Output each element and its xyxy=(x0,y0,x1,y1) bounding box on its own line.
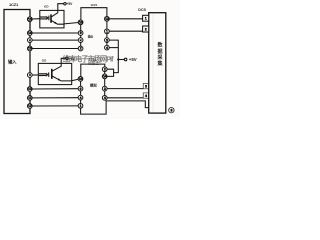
wire row y=40 xyxy=(32,39,78,41)
DCS pin square 1 xyxy=(143,15,149,21)
GD2 emitter xyxy=(52,76,72,81)
svg-text:×: × xyxy=(80,38,82,42)
svg-text:据: 据 xyxy=(157,48,162,55)
pin circles left box xyxy=(27,16,109,108)
svg-text:10: 10 xyxy=(28,87,32,91)
svg-text:4: 4 xyxy=(104,96,106,100)
socket1 pin 4 xyxy=(105,45,110,50)
svg-text:GD: GD xyxy=(44,5,49,9)
wire socket3 to bus xyxy=(109,40,118,48)
socket2 pin 14 xyxy=(102,74,107,79)
wire socket1 to DCS pin2 xyxy=(109,30,142,32)
svg-text:1: 1 xyxy=(106,30,108,34)
svg-text:1: 1 xyxy=(145,17,147,21)
svg-text:15: 15 xyxy=(28,17,32,21)
wire socket13 to DCS pin1 xyxy=(109,18,142,20)
GD2 phototransistor bar xyxy=(51,69,53,79)
socket right spine xyxy=(106,21,108,46)
svg-text:×: × xyxy=(29,38,31,42)
svg-text:+5V: +5V xyxy=(129,57,137,62)
svg-text:+5V: +5V xyxy=(69,57,76,61)
wire row y=33 xyxy=(32,32,78,34)
wire socket to DCS pin3 xyxy=(107,88,143,90)
socket1 pin 13 xyxy=(105,16,110,21)
svg-text:12: 12 xyxy=(28,104,32,108)
wire node to +5V term xyxy=(118,59,124,61)
plug1 pin b xyxy=(78,31,83,36)
svg-text:9: 9 xyxy=(80,31,82,35)
svg-text:数: 数 xyxy=(157,42,163,49)
plug1 pin a xyxy=(78,20,83,25)
vertical label in DCS box xyxy=(156,42,163,68)
+5V terminal 3 xyxy=(124,58,127,61)
wire socket4 to bus xyxy=(109,47,118,49)
svg-text:采: 采 xyxy=(156,54,163,61)
DCS pin square 3 xyxy=(143,84,149,89)
svg-text:14: 14 xyxy=(28,31,32,35)
socket2 pin 3 xyxy=(102,86,107,91)
wire pin to opto GD2 xyxy=(32,74,38,76)
svg-text:1CZ1: 1CZ1 xyxy=(90,3,97,7)
svg-text:14: 14 xyxy=(103,75,107,79)
plug2 pin d xyxy=(78,103,83,108)
svg-text:2: 2 xyxy=(145,27,147,31)
svg-text:13: 13 xyxy=(28,47,32,51)
wire pin15 to opto GD1 xyxy=(32,18,40,20)
pin 10 xyxy=(27,87,32,92)
GD1 phototransistor bar xyxy=(50,14,52,22)
svg-text:8: 8 xyxy=(170,109,172,113)
wire row y=89 xyxy=(32,88,78,90)
wire socket to DCS pin4 xyxy=(107,97,143,99)
connector box DCS (right) xyxy=(149,13,166,113)
pin x2 xyxy=(27,73,32,78)
socket1 pin 1 xyxy=(105,29,110,34)
svg-text:3: 3 xyxy=(104,87,106,91)
wire row y=106 xyxy=(32,105,78,107)
connector box CZ1 (left) xyxy=(4,10,30,114)
svg-text:2: 2 xyxy=(104,67,106,71)
pin 14 xyxy=(27,31,32,36)
optocoupler GD1 box xyxy=(40,10,64,28)
plug1 pin d xyxy=(78,46,83,51)
GD2 LED diode xyxy=(39,73,46,75)
svg-text:集: 集 xyxy=(156,60,163,67)
+5V terminal 2 xyxy=(66,57,68,59)
svg-text:输出: 输出 xyxy=(88,35,94,39)
svg-text:模拟: 模拟 xyxy=(90,83,97,88)
+5V bus xyxy=(114,48,119,73)
plug left spine xyxy=(80,25,82,47)
GD1 collector xyxy=(51,4,63,17)
GD1 LED diode xyxy=(40,16,46,18)
svg-text:1992: 1992 xyxy=(89,58,97,62)
socket2 spine xyxy=(104,71,106,95)
GD2 emitter arrow xyxy=(58,78,61,81)
svg-text:GD: GD xyxy=(42,59,47,63)
wire emitter to plug pin xyxy=(64,23,78,24)
svg-text:+5V: +5V xyxy=(66,2,73,6)
svg-text:输入: 输入 xyxy=(8,58,17,65)
svg-text:10: 10 xyxy=(79,77,83,81)
pin 12 xyxy=(27,104,32,109)
svg-text:3: 3 xyxy=(106,38,108,42)
figure mark (8) xyxy=(169,108,174,113)
svg-text:10: 10 xyxy=(79,21,83,25)
CZ plug top rail xyxy=(81,8,107,20)
svg-text:1: 1 xyxy=(80,104,82,108)
plug2 spine xyxy=(80,81,82,103)
inner shade line of DCS box xyxy=(152,14,154,113)
DCS pin square 2 xyxy=(143,26,149,32)
pin 15 xyxy=(27,17,32,22)
plug2 pin c xyxy=(78,95,83,100)
pin numbers xyxy=(28,17,172,113)
plug2 pin a xyxy=(78,77,83,82)
svg-text:11: 11 xyxy=(28,96,32,100)
pin 11 xyxy=(27,96,32,101)
plug2 pin b xyxy=(78,86,83,91)
DCS pin square 4 xyxy=(143,93,149,98)
bracket to socket pins 2,14 xyxy=(107,69,114,76)
GD2 collector xyxy=(52,58,66,71)
node +5V xyxy=(117,58,119,60)
svg-text:3: 3 xyxy=(145,84,147,88)
plug1 pin c xyxy=(78,38,83,43)
svg-text:4: 4 xyxy=(106,46,108,50)
svg-text:4: 4 xyxy=(80,96,82,100)
socket2 pin 2 xyxy=(102,67,107,72)
svg-text:6: 6 xyxy=(80,87,82,91)
svg-text:×: × xyxy=(29,73,31,77)
ground U link xyxy=(81,101,149,114)
pin x xyxy=(27,38,32,43)
+5V terminal 1 xyxy=(64,3,66,5)
CZ2 plug top rail xyxy=(81,64,105,77)
pin 13 xyxy=(27,46,32,51)
wire row y=48.5 xyxy=(32,48,78,50)
GD1 emitter arrow xyxy=(54,22,57,24)
optocoupler GD2 box xyxy=(38,63,71,84)
GD1 emitter xyxy=(51,21,64,25)
wire emitter2 to plug pin xyxy=(72,79,79,81)
wire row y=97.7 xyxy=(32,97,78,99)
svg-text:2: 2 xyxy=(80,47,82,51)
svg-text:DCS: DCS xyxy=(138,8,146,12)
socket1 pin 3 xyxy=(105,38,110,43)
socket2 pin 4 xyxy=(102,95,107,100)
svg-text:4: 4 xyxy=(145,94,147,98)
svg-text:1CZ1: 1CZ1 xyxy=(9,2,19,7)
svg-text:13: 13 xyxy=(105,17,109,21)
